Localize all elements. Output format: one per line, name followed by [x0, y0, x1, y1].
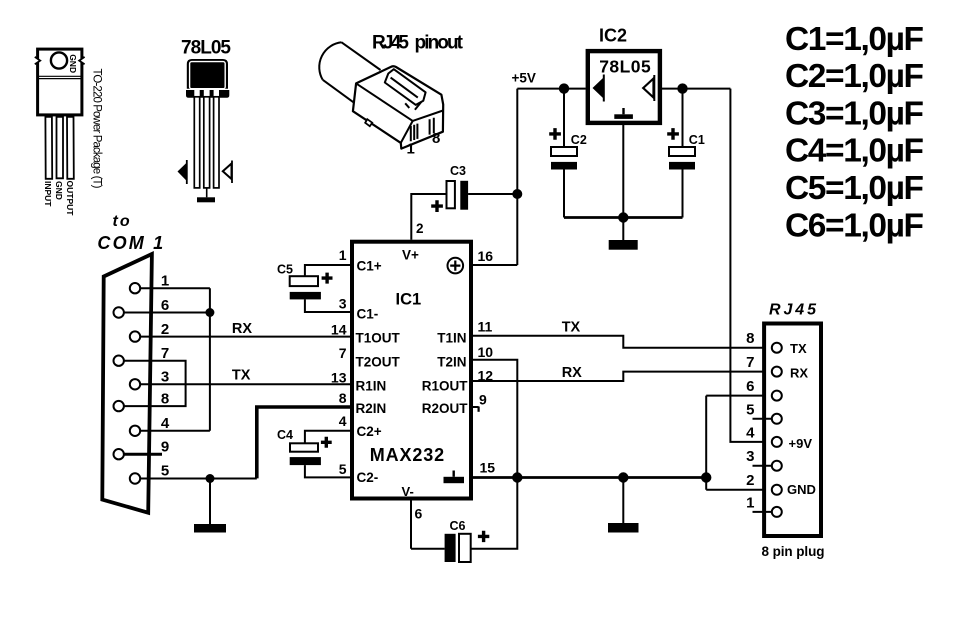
svg-text:7: 7	[746, 354, 754, 371]
svg-text:2: 2	[416, 221, 424, 236]
svg-text:C1+: C1+	[357, 258, 382, 273]
svg-text:7: 7	[161, 345, 169, 362]
svg-text:RX: RX	[232, 321, 252, 337]
svg-text:T1IN: T1IN	[437, 330, 466, 345]
svg-text:T2IN: T2IN	[437, 354, 466, 369]
svg-text:IC2: IC2	[599, 26, 627, 46]
svg-text:1: 1	[339, 247, 347, 263]
svg-text:C4: C4	[277, 428, 293, 442]
svg-text:13: 13	[331, 369, 347, 385]
svg-text:1: 1	[746, 495, 754, 512]
svg-text:MAX232: MAX232	[370, 445, 445, 465]
svg-text:C5: C5	[277, 263, 293, 277]
svg-text:4: 4	[161, 415, 170, 432]
svg-text:10: 10	[478, 344, 494, 360]
svg-text:6: 6	[415, 506, 423, 522]
svg-text:78L05: 78L05	[599, 57, 651, 77]
svg-text:2: 2	[161, 321, 169, 338]
svg-text:GND: GND	[54, 181, 64, 200]
svg-text:6: 6	[161, 297, 169, 314]
svg-text:RX: RX	[562, 365, 582, 381]
svg-text:8 pin plug: 8 pin plug	[762, 544, 825, 559]
svg-text:R1OUT: R1OUT	[422, 378, 469, 393]
svg-text:5: 5	[339, 461, 347, 477]
svg-text:C5=1,0µF: C5=1,0µF	[785, 170, 924, 207]
svg-text:R2IN: R2IN	[356, 401, 387, 416]
svg-text:T1OUT: T1OUT	[356, 330, 401, 345]
svg-text:1: 1	[407, 141, 415, 158]
svg-text:+5V: +5V	[512, 71, 536, 86]
svg-text:C2-: C2-	[357, 470, 379, 485]
svg-text:C1: C1	[689, 133, 705, 147]
svg-text:GND: GND	[68, 54, 78, 73]
svg-text:8: 8	[161, 391, 169, 408]
svg-text:78L05: 78L05	[181, 38, 231, 59]
svg-text:INPUT: INPUT	[43, 181, 53, 207]
svg-text:C3=1,0µF: C3=1,0µF	[785, 95, 924, 132]
svg-text:to: to	[113, 213, 132, 230]
svg-text:RX: RX	[790, 365, 808, 380]
svg-text:TX: TX	[562, 319, 581, 335]
svg-text:GND: GND	[787, 482, 816, 497]
svg-text:9: 9	[479, 392, 487, 408]
svg-text:R1IN: R1IN	[356, 378, 387, 393]
svg-text:C3: C3	[450, 164, 466, 178]
svg-text:5: 5	[161, 463, 169, 480]
svg-text:V-: V-	[402, 484, 414, 499]
svg-text:C4=1,0µF: C4=1,0µF	[785, 133, 924, 170]
svg-text:11: 11	[478, 319, 493, 335]
svg-text:C6: C6	[450, 519, 466, 533]
svg-text:8: 8	[746, 330, 754, 347]
svg-text:15: 15	[480, 460, 496, 476]
svg-text:2: 2	[746, 472, 754, 489]
svg-text:3: 3	[746, 448, 754, 465]
svg-text:3: 3	[339, 295, 347, 311]
svg-text:C1-: C1-	[357, 306, 379, 321]
svg-text:T2OUT: T2OUT	[356, 354, 401, 369]
svg-text:6: 6	[746, 378, 754, 395]
svg-text:C2=1,0µF: C2=1,0µF	[785, 58, 924, 95]
svg-text:1: 1	[161, 273, 169, 290]
svg-text:8: 8	[432, 130, 440, 147]
svg-text:+9V: +9V	[789, 436, 813, 451]
svg-text:4: 4	[339, 413, 347, 429]
svg-text:COM 1: COM 1	[97, 233, 165, 253]
svg-text:IC1: IC1	[396, 291, 422, 309]
svg-text:OUTPUT: OUTPUT	[65, 181, 75, 217]
svg-text:RJ45: RJ45	[372, 32, 409, 53]
svg-text:8: 8	[339, 390, 347, 406]
svg-text:R2OUT: R2OUT	[422, 401, 469, 416]
svg-text:9: 9	[161, 439, 169, 456]
svg-text:C2: C2	[571, 133, 587, 147]
svg-text:4: 4	[746, 424, 755, 441]
svg-text:C6=1,0µF: C6=1,0µF	[785, 207, 924, 244]
svg-text:TX: TX	[232, 367, 251, 383]
svg-text:TO-220 Power Package (T): TO-220 Power Package (T)	[91, 69, 103, 189]
svg-text:V+: V+	[402, 248, 419, 263]
svg-text:pinout: pinout	[415, 32, 464, 53]
svg-text:7: 7	[339, 345, 347, 361]
svg-text:16: 16	[478, 248, 494, 264]
svg-text:C2+: C2+	[357, 424, 382, 439]
svg-text:14: 14	[331, 321, 347, 337]
svg-text:C1=1,0µF: C1=1,0µF	[785, 21, 924, 58]
svg-text:5: 5	[746, 401, 754, 418]
svg-text:TX: TX	[790, 341, 807, 356]
svg-text:3: 3	[161, 369, 169, 386]
